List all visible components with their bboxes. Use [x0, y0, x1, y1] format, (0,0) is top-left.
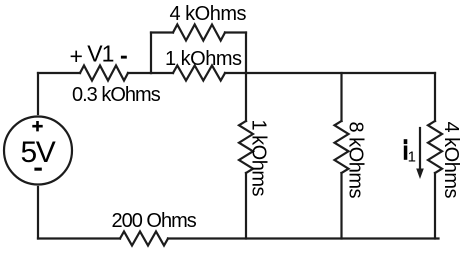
- wire lower branch left: [151, 72, 173, 74]
- wire top branch right: [225, 31, 246, 33]
- wire branch 3 lower segment: [434, 173, 436, 239]
- svg-text:8 kOhms: 8 kOhms: [345, 122, 367, 199]
- label i1 dot of i: [404, 139, 408, 144]
- resistor 8 kOhms (vertical branch): [335, 121, 349, 173]
- wire main top rail: [246, 72, 435, 74]
- wire top branch left: [151, 31, 173, 33]
- label - of V1: [121, 56, 127, 59]
- wire source bottom vertical: [37, 187, 39, 239]
- resistor 0.3 kOhms: [80, 66, 128, 81]
- wire parallel right vertical: [245, 33, 247, 74]
- svg-text:V1: V1: [87, 41, 113, 67]
- wire branch 1 lower segment: [245, 173, 247, 239]
- resistor 4 kOhms (vertical branch): [428, 121, 442, 173]
- resistor 1 kOhms (vertical branch): [239, 121, 253, 173]
- svg-text:0.3 kOhms: 0.3 kOhms: [72, 84, 161, 106]
- resistor 1 kOhms (parallel branch): [173, 66, 225, 81]
- current arrow i1: [419, 128, 421, 171]
- wire bottom rail right: [168, 237, 439, 239]
- resistor 200 Ohms: [120, 232, 168, 246]
- label - inside source: [34, 168, 41, 171]
- wire parallel left vertical: [150, 33, 152, 74]
- label + inside source: [32, 121, 42, 131]
- svg-text:5V: 5V: [21, 136, 56, 169]
- svg-text:200 Ohms: 200 Ohms: [112, 210, 197, 232]
- svg-text:1: 1: [408, 149, 416, 166]
- wire branch 1 upper segment: [245, 73, 247, 121]
- wire to parallel node: [128, 72, 151, 74]
- svg-text:1 kOhms: 1 kOhms: [165, 48, 242, 70]
- current arrow i1 head: [416, 169, 424, 180]
- wire branch 2 upper segment: [340, 73, 342, 121]
- wire left vertical from source top to top rail: [37, 73, 39, 114]
- wire top-left horizontal: [38, 72, 80, 74]
- svg-text:1 kOhms: 1 kOhms: [248, 120, 270, 197]
- wire branch 2 lower segment: [340, 173, 342, 239]
- svg-text:4 kOhms: 4 kOhms: [440, 122, 462, 199]
- resistor 4 kOhms (top branch): [173, 25, 225, 41]
- svg-text:4 kOhms: 4 kOhms: [170, 3, 247, 25]
- voltage source V circle: [4, 117, 72, 185]
- wire lower branch right: [225, 72, 246, 74]
- label i1 stem of i: [404, 146, 408, 160]
- wire bottom rail left: [38, 237, 120, 239]
- wire branch 3 upper segment: [434, 73, 436, 121]
- svg-text:+: +: [70, 43, 83, 69]
